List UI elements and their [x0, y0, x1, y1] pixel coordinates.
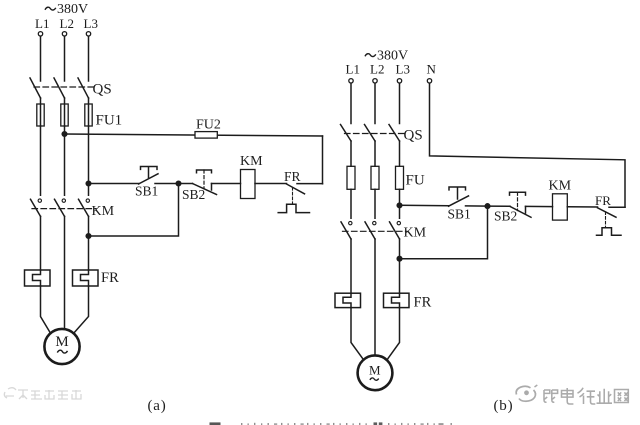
svg-text:KM: KM	[92, 204, 115, 219]
svg-text:M: M	[55, 334, 68, 350]
svg-text:L3: L3	[396, 62, 410, 77]
svg-text:380V: 380V	[57, 2, 88, 17]
svg-text:FR: FR	[595, 193, 611, 208]
svg-text:FR: FR	[284, 169, 301, 184]
svg-text:FR: FR	[414, 295, 432, 311]
svg-text:SB1: SB1	[448, 206, 471, 221]
svg-text:L2: L2	[60, 16, 74, 31]
svg-text:L1: L1	[346, 62, 360, 77]
svg-text:KM: KM	[549, 179, 572, 194]
svg-text:FU: FU	[406, 173, 425, 189]
svg-text:SB2: SB2	[182, 187, 205, 202]
svg-text:FR: FR	[101, 270, 119, 286]
svg-text:(a): (a)	[148, 398, 167, 414]
svg-text:M: M	[369, 363, 381, 378]
svg-text:(b): (b)	[494, 398, 514, 414]
svg-text:FU1: FU1	[96, 113, 123, 129]
svg-text:L2: L2	[370, 62, 384, 77]
svg-text:KM: KM	[404, 226, 427, 241]
svg-text:L1: L1	[35, 16, 49, 31]
svg-text:N: N	[427, 62, 437, 77]
svg-text:KM: KM	[240, 154, 263, 169]
svg-text:L3: L3	[84, 16, 98, 31]
svg-text:QS: QS	[93, 82, 112, 98]
svg-text:SB1: SB1	[135, 184, 158, 199]
svg-text:FU2: FU2	[196, 118, 221, 133]
svg-text:SB2: SB2	[494, 209, 517, 224]
svg-text:QS: QS	[404, 128, 423, 144]
